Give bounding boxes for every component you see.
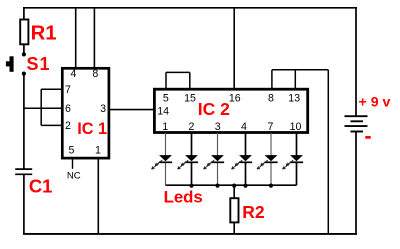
svg-text:4: 4: [241, 121, 247, 133]
svg-text:10: 10: [290, 121, 302, 133]
svg-text:S: S: [27, 54, 39, 74]
svg-text:8: 8: [268, 92, 274, 104]
svg-text:2: 2: [189, 121, 195, 133]
svg-text:NC: NC: [67, 171, 81, 182]
svg-text:1: 1: [40, 54, 50, 74]
svg-text:3: 3: [215, 121, 221, 133]
svg-text:16: 16: [229, 92, 241, 104]
svg-text:5: 5: [69, 144, 75, 156]
svg-text:IC 1: IC 1: [77, 120, 107, 138]
svg-text:3: 3: [100, 103, 106, 115]
svg-text:13: 13: [288, 92, 300, 104]
svg-text:1: 1: [162, 121, 168, 133]
svg-text:R1: R1: [31, 23, 57, 45]
svg-text:C1: C1: [29, 176, 53, 197]
svg-text:14: 14: [157, 106, 169, 118]
svg-text:7: 7: [268, 121, 274, 133]
svg-text:R2: R2: [242, 202, 265, 222]
svg-text:1: 1: [95, 144, 101, 156]
svg-text:4: 4: [70, 68, 76, 80]
svg-text:8: 8: [92, 68, 98, 80]
svg-text:+ 9 v: + 9 v: [359, 95, 391, 111]
svg-text:5: 5: [163, 92, 169, 104]
svg-text:2: 2: [65, 120, 71, 132]
svg-text:6: 6: [65, 103, 71, 115]
svg-text:Leds: Leds: [164, 187, 203, 206]
svg-text:15: 15: [184, 92, 196, 104]
svg-text:7: 7: [65, 84, 71, 96]
svg-text:IC 2: IC 2: [198, 99, 230, 119]
